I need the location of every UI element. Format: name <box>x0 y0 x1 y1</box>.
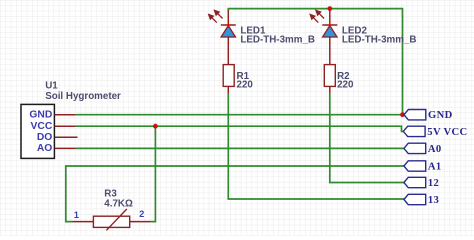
svg-text:2: 2 <box>139 209 144 219</box>
svg-text:A0: A0 <box>428 144 442 155</box>
component U1 Soil Hygrometer box <box>21 104 54 158</box>
wire AO net: U1.AO to A0 flag <box>75 147 404 149</box>
LED2 pin-end cross <box>327 22 333 28</box>
LED2 emission arrows <box>310 10 324 22</box>
R2 bottom pin stub <box>329 86 331 93</box>
LED2 top pin <box>329 11 331 26</box>
svg-text:DO: DO <box>37 132 52 143</box>
wire 12 net: R2 bottom down and right to 12 flag <box>330 93 404 183</box>
net flag GND <box>404 110 453 122</box>
net flag 5V VCC <box>403 126 467 138</box>
svg-text:220: 220 <box>237 80 254 91</box>
LED1 cathode bar <box>221 24 236 26</box>
LED1 emission arrows <box>209 10 223 22</box>
pin DO of U1 (unconnected stub) <box>55 136 78 138</box>
wire LED2 top stub <box>329 9 331 11</box>
wire GND net: top bus over LEDs down to GND flag <box>228 9 404 115</box>
svg-text:GND: GND <box>29 109 52 120</box>
svg-text:GND: GND <box>428 110 453 121</box>
svg-text:AO: AO <box>37 143 52 154</box>
svg-text:5V VCC: 5V VCC <box>427 127 467 138</box>
LED1 triangle <box>221 26 235 37</box>
junction dot on VCC wire at R3 drop <box>153 124 158 129</box>
svg-text:13: 13 <box>428 195 439 206</box>
R3 diagonal <box>106 209 126 230</box>
svg-text:LED-TH-3mm_B: LED-TH-3mm_B <box>240 35 315 46</box>
svg-text:LED-TH-3mm_B: LED-TH-3mm_B <box>342 35 417 46</box>
LED2 cathode bar <box>322 24 337 26</box>
R1 bottom pin stub <box>227 86 229 93</box>
svg-text:Soil Hygrometer: Soil Hygrometer <box>45 91 121 102</box>
svg-text:220: 220 <box>337 80 354 91</box>
junction dot at GND flag <box>400 112 405 117</box>
resistor R3 4.7K (adjustable) <box>73 189 151 231</box>
net flag A1 <box>404 161 442 173</box>
wire GND net: U1.GND to right <box>75 114 402 116</box>
LED LED2 <box>310 10 416 64</box>
LED1 pin-end cross <box>226 22 232 28</box>
net flag A0 <box>404 143 442 155</box>
svg-text:VCC: VCC <box>31 121 53 132</box>
LED2 bottom pin <box>329 37 331 65</box>
junction dot on top GND bus at LED2 <box>327 6 332 11</box>
net flag 12 <box>404 177 439 189</box>
net flag 13 <box>404 194 439 206</box>
svg-text:A1: A1 <box>428 162 442 173</box>
svg-text:U1: U1 <box>45 81 58 92</box>
resistor R2 <box>324 65 354 93</box>
LED2 triangle <box>323 26 337 37</box>
wire 13 net: R1 bottom down and right to 13 flag <box>228 93 404 199</box>
resistor R1 <box>223 65 253 93</box>
pin VCC of U1 <box>55 125 76 127</box>
svg-text:4.7KΩ: 4.7KΩ <box>104 199 133 210</box>
wire VCC net: U1.VCC to 5V VCC flag with jog <box>75 126 403 131</box>
svg-text:12: 12 <box>428 178 439 189</box>
LED1 bottom pin <box>227 37 229 65</box>
LED LED1 <box>209 10 315 64</box>
svg-text:1: 1 <box>74 210 79 220</box>
pin AO of U1 <box>55 147 76 149</box>
pin GND of U1 <box>55 114 76 116</box>
wire A1 net: R3 pin1 up and right to A1 flag <box>66 166 404 222</box>
R3 pin 1 <box>73 221 94 223</box>
LED1 top pin <box>227 11 229 26</box>
wire VCC drop to R3 pin2 <box>151 126 156 221</box>
R3 pin 2 <box>130 221 151 223</box>
